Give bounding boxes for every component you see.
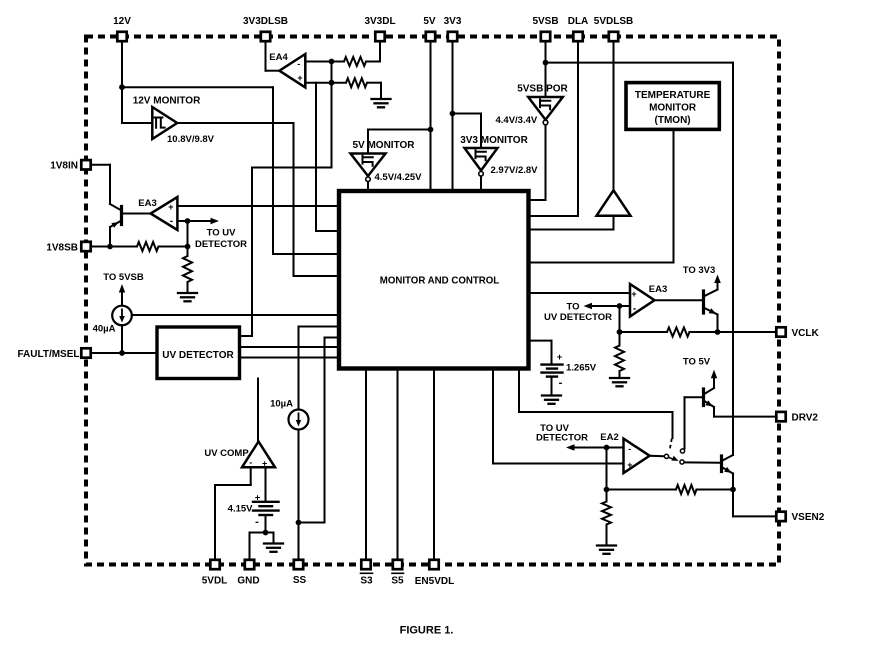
- wire Q1 emitter down to VCLK line: [717, 315, 719, 333]
- wire 5VSB branch right: [546, 62, 734, 64]
- comparator 5V MONITOR: [351, 154, 386, 177]
- wire EA2 inverting input: [607, 447, 624, 449]
- pin 12V: [117, 32, 126, 41]
- pin GND: [245, 560, 254, 569]
- pin DLA: [573, 32, 582, 41]
- wire 1V8SB pin right: [92, 246, 137, 248]
- svg-text:FAULT/MSEL: FAULT/MSEL: [17, 349, 79, 360]
- node EA2 feedback junction: [604, 487, 610, 493]
- svg-text:S5: S5: [391, 576, 404, 587]
- wire EA4 noninverting input: [305, 82, 331, 84]
- comparator UV COMP: [242, 442, 275, 468]
- svg-text:+: +: [297, 73, 302, 83]
- svg-text:S3: S3: [360, 576, 373, 587]
- wire EA3 right output to Q1 base: [655, 299, 703, 301]
- node 1V8SB emitter junction: [107, 244, 113, 250]
- pin FAULT/MSEL: [81, 348, 90, 357]
- wire EA4 node down to UV detector: [251, 168, 253, 337]
- svg-text:EA3: EA3: [649, 284, 667, 295]
- pin EN5VDL: [429, 560, 438, 569]
- svg-text:5V: 5V: [423, 16, 436, 27]
- node feedback junction: [185, 244, 191, 250]
- node SS junction: [296, 520, 302, 526]
- pin 5VDL: [210, 560, 219, 569]
- svg-text:DETECTOR: DETECTOR: [195, 239, 247, 250]
- pin 1V8SB: [81, 242, 90, 251]
- node Q3 emitter junction: [730, 487, 736, 493]
- wire FAULT/MSEL pin to UV detector: [92, 352, 157, 354]
- pin S5 with overline: [393, 560, 402, 569]
- svg-text:-: -: [297, 59, 300, 69]
- dashed switch control link: [670, 439, 672, 452]
- svg-text:+: +: [631, 289, 636, 299]
- svg-text:(TMON): (TMON): [655, 115, 691, 126]
- svg-text:40µA: 40µA: [93, 324, 116, 335]
- svg-text:EA2: EA2: [600, 432, 618, 443]
- wire battery minus down: [265, 515, 267, 533]
- pin 5V: [426, 32, 435, 41]
- svg-text:4.4V/3.4V: 4.4V/3.4V: [496, 115, 538, 126]
- transistor Q4 emitter diagonal: [110, 221, 122, 228]
- svg-text:UV DETECTOR: UV DETECTOR: [544, 312, 612, 323]
- wire EA2 noninverting from box bottom: [492, 368, 494, 464]
- svg-text:TO 5VSB: TO 5VSB: [103, 272, 144, 283]
- node EA3 right inverting junction: [617, 303, 623, 309]
- svg-text:TO 5V: TO 5V: [683, 356, 711, 367]
- wire 1V8IN pin right: [92, 164, 110, 166]
- transistor Q4 base bar: [120, 207, 123, 225]
- current source 10uA circle: [289, 410, 309, 430]
- pin 5VDLSB: [609, 32, 618, 41]
- wire EA4 input node vertical: [331, 62, 333, 168]
- svg-text:UV COMP: UV COMP: [204, 448, 249, 459]
- wire 12V monitor input: [122, 122, 152, 124]
- wire upper contact to Q2 base: [684, 397, 686, 448]
- svg-text:10.8V/9.8V: 10.8V/9.8V: [167, 134, 215, 145]
- svg-text:5VDL: 5VDL: [202, 576, 228, 587]
- node 5VSB POR output circle: [543, 120, 548, 125]
- wire 12V pin down: [121, 42, 123, 123]
- wire DLA pin down into box right side: [577, 42, 579, 216]
- transistor Q2 base bar: [702, 389, 705, 406]
- wire lower contact to Q3 base: [685, 461, 721, 463]
- pin S3 with overline: [361, 560, 370, 569]
- transistor Q2 emitter diagonal: [704, 401, 715, 408]
- ground below R4: [178, 292, 197, 294]
- wire EN5VDL pin up into box: [433, 368, 435, 558]
- svg-text:EA3: EA3: [138, 198, 156, 209]
- node EA4 inverting junction: [329, 59, 335, 65]
- svg-text:2.97V/2.8V: 2.97V/2.8V: [491, 165, 539, 176]
- wire 5V pin down into box: [430, 42, 432, 189]
- wire SS branch right: [299, 522, 325, 524]
- wire 40uA output right into box: [132, 314, 338, 316]
- node 5V monitor output circle: [366, 177, 371, 182]
- wire 12V monitor output down: [293, 123, 295, 276]
- svg-text:-: -: [633, 304, 636, 315]
- wire UV detector output 1 to box: [240, 346, 338, 348]
- node battery ground junction: [263, 530, 269, 536]
- wire EA3 output to Q4 base: [122, 213, 151, 215]
- wire 12V branch right: [122, 86, 273, 88]
- arrow TO UV DETECTOR from EA2: [571, 447, 607, 449]
- resistor R1 3V3DL to EA4 inverting: [332, 61, 345, 63]
- svg-text:VSEN2: VSEN2: [792, 512, 825, 523]
- comparator 12V MONITOR: [152, 107, 177, 139]
- svg-text:+: +: [627, 460, 632, 470]
- wire into UV detector right side: [240, 335, 253, 337]
- svg-text:EA4: EA4: [269, 52, 288, 63]
- resistor R7 feedback: [607, 489, 677, 491]
- IC boundary dashed box: [86, 37, 779, 565]
- svg-text:TO 3V3: TO 3V3: [683, 265, 716, 276]
- switch contact upper: [680, 449, 684, 453]
- node EA2 inverting junction: [604, 445, 610, 451]
- wire POR output down into box right side: [545, 125, 547, 200]
- resistor R3 1V8SB feedback: [137, 242, 159, 251]
- switch arm arrow: [669, 457, 673, 459]
- op-amp EA3 left: [151, 197, 178, 230]
- wire Q2 emitter to DRV2: [713, 407, 715, 417]
- resistor R8 to ground: [606, 490, 608, 502]
- wire to GND pin: [250, 532, 266, 534]
- svg-text:-: -: [249, 457, 252, 467]
- wire 5V monitor output into box: [367, 182, 369, 189]
- wire TMON into box right side: [530, 262, 674, 264]
- svg-text:3V3DL: 3V3DL: [364, 16, 395, 27]
- wire 1V8IN down to Q4 collector: [109, 165, 111, 204]
- ground below R2: [372, 98, 391, 100]
- switch contact lower: [680, 460, 684, 464]
- arrow TO UV DETECTOR right: [589, 305, 620, 307]
- svg-text:3V3: 3V3: [444, 16, 462, 27]
- resistor R4 to ground: [187, 247, 189, 257]
- svg-text:3V3DLSB: 3V3DLSB: [243, 16, 288, 27]
- wire switch control from box bottom: [518, 368, 520, 412]
- node FAULT junction: [119, 350, 125, 356]
- wire Q1 collector up / arrow TO 3V3: [717, 279, 719, 290]
- svg-text:UV DETECTOR: UV DETECTOR: [162, 350, 234, 361]
- resistor R5 to VCLK: [620, 331, 668, 333]
- pin 3V3DL: [375, 32, 384, 41]
- wire UV detector output 2 to box: [240, 357, 338, 359]
- svg-text:-: -: [255, 516, 259, 528]
- comparator 3V3 MONITOR: [465, 148, 498, 171]
- wire R2 to ground: [380, 83, 382, 99]
- wire 5VDLSB pin down to buffer: [613, 42, 615, 190]
- op-amp EA2: [624, 439, 650, 473]
- svg-text:FIGURE 1.: FIGURE 1.: [400, 625, 454, 637]
- current source 40uA circle: [112, 306, 132, 326]
- node 3V3 monitor output circle: [479, 172, 484, 177]
- wire Q2 collector up / arrow TO 5V: [713, 375, 715, 389]
- svg-text:12V MONITOR: 12V MONITOR: [133, 96, 201, 107]
- svg-text:-: -: [628, 444, 631, 454]
- wire 12V branch into box: [273, 253, 338, 255]
- pin 1V8IN: [81, 160, 90, 169]
- svg-text:4.15V: 4.15V: [228, 504, 253, 515]
- comparator 5VSB POR: [528, 97, 563, 120]
- wire 5VSB long vertical to Q3 collector: [732, 63, 734, 455]
- wire SS branch up into box: [324, 338, 326, 523]
- svg-text:DETECTOR: DETECTOR: [536, 433, 588, 444]
- pin VSEN2: [776, 512, 785, 521]
- wire EA3 right inverting input: [620, 305, 631, 307]
- wire EA2 output: [650, 455, 664, 457]
- svg-text:12V: 12V: [113, 16, 131, 27]
- svg-text:EN5VDL: EN5VDL: [415, 576, 454, 587]
- wire S5 pin up into box: [397, 368, 399, 558]
- ground below 1.265V battery: [542, 394, 561, 396]
- svg-text:DRV2: DRV2: [792, 412, 819, 423]
- wire to ground symbol: [266, 532, 274, 534]
- pin SS: [294, 560, 303, 569]
- wire EA4 inverting input: [305, 61, 331, 63]
- svg-text:MONITOR: MONITOR: [649, 102, 697, 113]
- transistor Q4 collector diagonal: [110, 204, 122, 211]
- svg-text:5V MONITOR: 5V MONITOR: [352, 140, 415, 151]
- wire SS pin up: [298, 523, 300, 559]
- wire UV COMP noninverting down to battery: [265, 467, 267, 501]
- svg-text:+: +: [557, 352, 563, 363]
- resistor R2 EA4 noninverting to ground: [332, 82, 347, 84]
- wire Q3 emitter down: [732, 474, 734, 490]
- arrow TO 5VSB up: [121, 290, 123, 306]
- node Q1 emitter junction: [715, 329, 721, 335]
- svg-text:1V8IN: 1V8IN: [50, 161, 78, 172]
- svg-text:-: -: [170, 216, 173, 227]
- wire to VSEN2: [732, 490, 734, 517]
- wire EA4 output to 3V3DLSB: [266, 70, 280, 72]
- wire UV COMP inverting down: [250, 467, 252, 485]
- node EA3 inverting junction: [185, 218, 191, 224]
- wire 5V branch to monitor: [368, 129, 431, 131]
- wire EA3 inverting input: [177, 220, 187, 222]
- svg-text:TO: TO: [566, 301, 579, 312]
- node 12V junction: [119, 84, 125, 90]
- node 3V3 junction: [450, 111, 456, 117]
- svg-text:3V3 MONITOR: 3V3 MONITOR: [460, 135, 528, 146]
- wire down to 5VDL pin: [214, 485, 216, 558]
- op-amp EA4: [279, 54, 305, 87]
- wire 10uA down to SS node: [298, 430, 300, 523]
- svg-text:MONITOR AND CONTROL: MONITOR AND CONTROL: [380, 276, 500, 287]
- wire Q4 emitter down: [109, 227, 111, 247]
- wire 3V3 branch to monitor: [453, 113, 482, 115]
- node VCLK feedback junction: [617, 329, 623, 335]
- wire box to 1.265V battery: [530, 340, 552, 342]
- svg-text:10µA: 10µA: [270, 399, 293, 410]
- wire 12V branch down to monitor-and-control: [272, 87, 274, 254]
- transistor Q1 collector diagonal: [704, 290, 718, 297]
- svg-text:+: +: [168, 202, 173, 212]
- node 5VSB junction: [543, 60, 549, 66]
- wire 10uA up into box: [298, 327, 300, 410]
- buffer amplifier DLA: [597, 190, 631, 215]
- switch contact common: [664, 454, 668, 458]
- op-amp EA3 right: [630, 284, 655, 317]
- svg-text:1V8SB: 1V8SB: [46, 242, 78, 253]
- transistor Q3 base bar: [720, 456, 723, 472]
- node EA4 noninverting junction: [329, 80, 335, 86]
- ground below R6: [610, 377, 629, 379]
- pin 5VSB: [541, 32, 550, 41]
- wire 40uA down to FAULT/MSEL: [121, 325, 123, 353]
- transistor Q2 collector diagonal: [704, 388, 715, 395]
- wire TMON down: [673, 129, 675, 262]
- transistor Q1 base bar: [702, 291, 705, 313]
- ground below 4.15V battery: [264, 542, 283, 544]
- wire inverting node down: [619, 306, 621, 332]
- wire EA4 plus tap into box: [316, 230, 338, 232]
- svg-text:-: -: [559, 377, 563, 389]
- ground below R8: [597, 544, 616, 546]
- svg-text:DLA: DLA: [568, 16, 589, 27]
- pin VCLK: [776, 327, 785, 336]
- svg-text:4.5V/4.25V: 4.5V/4.25V: [375, 172, 423, 183]
- block MONITOR AND CONTROL: [339, 191, 529, 369]
- resistor R6 to ground: [619, 332, 621, 346]
- pin 3V3: [448, 32, 457, 41]
- wire EA2 node down: [606, 448, 608, 490]
- wire battery down to ground: [551, 377, 553, 396]
- wire S3 pin up into box: [365, 368, 367, 558]
- svg-text:5VSB POR: 5VSB POR: [517, 84, 568, 95]
- wire 5VSB pin down: [545, 42, 547, 97]
- svg-text:5VDLSB: 5VDLSB: [594, 16, 633, 27]
- transistor Q3 emitter diagonal: [722, 467, 734, 474]
- wire EA3 right noninverting input: [530, 292, 630, 294]
- wire EA4 node left: [252, 167, 332, 169]
- block TEMPERATURE MONITOR (TMON): [626, 83, 719, 130]
- transistor Q1 emitter diagonal: [704, 308, 718, 315]
- pin DRV2: [776, 412, 785, 421]
- wire 12V monitor output into box: [294, 275, 338, 277]
- wire 3V3DL pin down: [379, 42, 381, 62]
- svg-text:VCLK: VCLK: [792, 328, 820, 339]
- svg-text:GND: GND: [237, 576, 259, 587]
- svg-text:1.265V: 1.265V: [566, 363, 597, 374]
- wire 3V3 pin down into box: [452, 42, 454, 189]
- pin 3V3DLSB: [261, 32, 270, 41]
- svg-text:TEMPERATURE: TEMPERATURE: [635, 90, 711, 101]
- wire UV detector bottom to UV COMP: [257, 379, 259, 442]
- wire 3V3 monitor output into box: [480, 177, 482, 190]
- svg-text:SS: SS: [293, 575, 307, 586]
- node 5V junction: [428, 127, 434, 133]
- wire EA3 noninverting input to box: [177, 205, 337, 207]
- transistor Q3 collector diagonal: [722, 455, 734, 461]
- wire buffer output into box right side: [613, 216, 615, 230]
- wire EA4 plus tap down: [315, 83, 317, 231]
- svg-text:TO UV: TO UV: [207, 227, 237, 238]
- wire EA3 inverting down to feedback node: [187, 221, 189, 247]
- wire 12V monitor output right: [177, 122, 293, 124]
- arrow TO UV DETECTOR left: [188, 220, 213, 222]
- svg-text:5VSB: 5VSB: [532, 16, 558, 27]
- block UV DETECTOR: [157, 327, 240, 379]
